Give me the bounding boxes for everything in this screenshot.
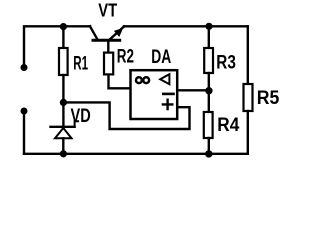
- transistor VT emitter arrow: [114, 28, 123, 37]
- resistor R4: [204, 112, 213, 138]
- wire R4 bottom lead: [208, 138, 210, 154]
- transistor VT base lead: [107, 42, 109, 53]
- wire VD bottom lead: [62, 138, 64, 154]
- wire VD top lead: [62, 102, 64, 125]
- resistor R2: [104, 53, 113, 75]
- node junction R3 top: [205, 23, 212, 30]
- node junction VD bottom: [60, 150, 67, 157]
- resistor R3: [204, 48, 213, 73]
- wire left bottom drop: [23, 114, 25, 154]
- wire top rail left with input drop: [24, 26, 90, 64]
- wire R4 top lead: [208, 91, 210, 112]
- node input terminal bottom: [21, 108, 28, 115]
- wire R2 base lead: [109, 74, 131, 88]
- op-amp DA plus input sign: [163, 100, 172, 109]
- node input terminal top: [21, 64, 28, 71]
- wire R3 top lead: [208, 26, 210, 48]
- wire R3 bottom lead: [208, 73, 210, 91]
- transistor VT collector lead: [90, 26, 98, 39]
- wire noninverting input routing: [63, 102, 189, 129]
- wire R1 top lead: [62, 27, 64, 48]
- diode VD anode triangle: [55, 128, 72, 138]
- op-amp DA box: [131, 70, 178, 119]
- svg-text:R2: R2: [117, 46, 134, 67]
- wire R1 bottom lead: [62, 75, 64, 102]
- op-amp DA output triangle: [160, 74, 169, 84]
- svg-text:R3: R3: [216, 52, 236, 73]
- wire top rail right: [124, 25, 248, 27]
- svg-text:R4: R4: [217, 115, 239, 136]
- node junction R4 bottom: [205, 150, 212, 157]
- transistor VT base bar: [93, 39, 120, 42]
- resistor R1: [59, 48, 68, 75]
- diode VD zener tail: [75, 121, 78, 127]
- diode VD zener cathode bar: [51, 126, 75, 128]
- op-amp DA infinity gain symbol: [136, 77, 142, 83]
- transistor VT emitter lead: [110, 27, 124, 40]
- wire right column to R5: [247, 26, 249, 84]
- resistor R5: [244, 84, 253, 111]
- wire bottom rail: [24, 153, 248, 155]
- svg-text:VD: VD: [71, 106, 91, 127]
- wire R5 bottom lead: [247, 111, 249, 154]
- svg-text:R5: R5: [257, 88, 280, 109]
- wire inverting input: [178, 89, 209, 91]
- node junction R1 top: [60, 23, 67, 30]
- op-amp DA minus input sign: [163, 93, 173, 96]
- svg-text:VT: VT: [98, 1, 117, 21]
- node junction divider: [205, 87, 212, 94]
- svg-text:R1: R1: [73, 53, 88, 74]
- svg-text:DA: DA: [151, 47, 171, 68]
- node junction R1/VD: [60, 99, 67, 106]
